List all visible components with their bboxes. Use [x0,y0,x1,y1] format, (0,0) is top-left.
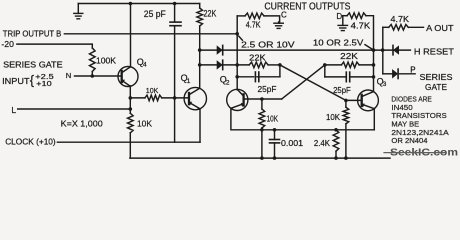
svg-text:2.4K: 2.4K [314,138,330,148]
wire C branch [237,15,245,17]
wire Q3 10K upper lead [345,100,347,107]
wire left network join [279,65,281,77]
wire 22K-right leads [325,64,342,66]
wire Q2 emitter [231,109,374,130]
node 22K-left 25pF-left to Q2 collector [235,75,239,79]
svg-text:{: { [30,72,35,87]
node emitter bus / 2.4K [334,128,338,132]
tick 2.5-or-10V [239,36,243,40]
wire A branch [383,26,389,28]
wire cross-coupling right-to-Q2base [282,65,325,99]
wire 22K-left right lead [268,64,280,66]
transistor Q2 [227,89,248,110]
svg-text:25pF: 25pF [258,84,277,94]
wire 100K to N node [91,72,93,77]
capacitor 25pF (right) leads [325,76,347,78]
svg-text:SERIES: SERIES [420,72,453,82]
wire Q2 10K lower lead [261,128,263,158]
wire 10K to Q1 base [162,97,189,99]
wire Q1 emitter return [198,109,200,142]
svg-text:2.5 OR 10V: 2.5 OR 10V [241,40,295,50]
node Q1 base junction [173,96,177,100]
node 22K-left / diode2 junction [235,63,239,67]
wire D branch [343,15,347,17]
svg-text:2: 2 [226,79,230,86]
node Q3 collector / steering row [372,48,376,52]
node 25pF-right / Q3 collector [372,75,376,79]
wire Q3 collector vertical [373,50,375,92]
resistor 10K (Q4 emitter) [128,113,134,133]
node emitter bus / 10K-left [260,128,264,132]
svg-text:-20: -20 [1,39,14,49]
node emitter bus / 0.001 cap [273,128,277,132]
svg-text:P: P [410,65,415,74]
node bottom rail / 10K-right [344,156,348,160]
svg-text:A OUT: A OUT [426,23,454,33]
diode CR1 (to Q3 collector) [217,45,223,54]
node junction rail/25pF cap [173,2,177,6]
node junction rail/Q4 collector [129,2,133,6]
capacitor 0.001 leads [274,130,276,140]
resistor 22K (top) [197,8,203,26]
svg-text:10K: 10K [146,86,159,95]
svg-text:N: N [66,71,71,80]
wire Q4 collector [130,4,132,67]
svg-text:+10: +10 [36,79,52,88]
wire Q4 emitter chain [129,86,131,113]
wire Q4 emitter to 10K [130,97,145,99]
node N junction [91,74,95,78]
node bottom rail / 2.4K [334,156,338,160]
svg-text:25pF: 25pF [333,85,351,95]
capacitor 0.001 [270,139,280,141]
node Q4 emitter / 10K base resistor [129,96,133,100]
diode H RESET [393,45,399,54]
svg-text:TRIP OUTPUT B: TRIP OUTPUT B [3,29,62,39]
wire 2.4K lower lead [335,151,337,158]
ground (top left) [77,4,79,14]
capacitor 25pF (top) lead upper [174,4,176,23]
wire Q2 collector vertical [236,16,238,90]
svg-text:10K: 10K [326,112,340,122]
resistor 4.7K (A OUT) [389,25,409,31]
wire top ground rail [78,3,199,5]
wire -20 to 100K [17,44,92,48]
diode CR2 (to Q2 collector) [217,60,223,69]
svg-text:25 pF: 25 pF [144,9,166,19]
node Q1 collector / diode 1 [198,48,202,52]
wire P branch [383,73,392,75]
diode P (series gate) [392,69,398,78]
wire Q3 10K lower lead [345,124,347,158]
node right network input [323,63,327,67]
wire P lead [400,73,415,75]
wire Q3 base [346,99,362,101]
resistor 2.4K [333,130,339,151]
svg-text:4.7K: 4.7K [246,21,261,30]
wire outputs vertical [382,27,384,74]
node L junction [129,107,133,111]
svg-text:4.7K: 4.7K [351,21,371,31]
wire Q2 10K upper lead [261,99,263,109]
svg-text:D: D [336,12,342,21]
svg-text:4: 4 [143,62,147,69]
node Q3 base / 10K [344,99,348,103]
svg-text:1: 1 [187,78,191,85]
svg-text:10 OR 2.5V: 10 OR 2.5V [313,38,364,48]
node 22K-right / Q3 collector [372,63,376,67]
svg-text:22K: 22K [249,52,266,62]
resistor 22K (left coupling) [249,62,268,68]
wire 10K to bottom rail [129,133,131,158]
svg-text:INPUT: INPUT [2,76,30,86]
svg-text:OR 2N404: OR 2N404 [391,136,427,145]
wire A OUT lead [408,26,423,28]
svg-text:3: 3 [383,81,387,88]
capacitor 25pF (right) [345,72,347,82]
wire right network join [324,65,326,77]
svg-text:0.001: 0.001 [281,138,303,148]
svg-text:L: L [11,105,16,115]
transistor Q3 [358,90,379,111]
tick 10-or-2.5V [365,45,372,50]
resistor 10K (Q2 bias) [259,109,265,128]
resistor 4.7K (D) [347,13,366,19]
svg-text:CLOCK (+10): CLOCK (+10) [5,136,56,146]
resistor 22K (right coupling) [341,62,359,68]
node Q1 collector / diode 2 [198,63,202,67]
wire diode2 row [200,64,250,66]
wire Q2 base [244,98,282,100]
wire 22K to Q1 collector [199,26,201,88]
wire CLOCK [57,141,200,143]
wire steering row (10 OR 2.5V net) [200,49,411,51]
capacitor 25pF (left) [254,72,256,82]
transistor Q4 [118,67,138,87]
node Q2 base / 10K [260,97,264,101]
svg-text:22K: 22K [204,8,217,18]
resistor 4.7K (C) [245,13,264,19]
capacitor 25pF (top) [170,21,181,23]
svg-text:GATE: GATE [425,82,447,92]
svg-text:K=X 1,000: K=X 1,000 [61,118,103,128]
wire N to Q4 base [75,75,122,77]
capacitor 25pF (left) leads [237,76,253,78]
transistor Q1 [184,87,206,109]
wire L [18,108,131,110]
wire C branch right corner [264,16,280,23]
wire cross-coupling left-to-Q3base [280,65,346,101]
wire rail corner to 22K [199,4,201,9]
wire TRIP OUTPUT B [64,33,237,35]
resistor 10K (Q1 base) [145,95,162,101]
node 2.5-or-10V junction [235,32,239,36]
ground (C output) [278,22,280,23]
svg-text:22K: 22K [340,51,358,61]
wire Q3 emitter [373,109,375,130]
wire bottom rail [130,157,390,159]
node bottom rail / 10K-left [260,156,264,160]
svg-text:100K: 100K [96,55,116,65]
svg-text:CURRENT OUTPUTS: CURRENT OUTPUTS [264,2,350,13]
ground (D output) [342,16,344,26]
svg-text:H RESET: H RESET [414,47,455,57]
svg-text:4.7K: 4.7K [391,14,410,24]
node bottom rail / 0.001 [273,156,277,160]
wire 25pF bottom to Q1 base junction [174,26,176,142]
svg-text:SERIES GATE: SERIES GATE [3,60,63,70]
wire D branch to Q3 collector net [366,16,374,50]
svg-text:10K: 10K [267,114,279,123]
svg-text:10K: 10K [137,119,152,129]
resistor 100K [90,48,96,72]
node H reset branch [381,48,385,52]
node left network output [278,63,282,67]
resistor 10K (Q3 bias) [343,107,349,124]
